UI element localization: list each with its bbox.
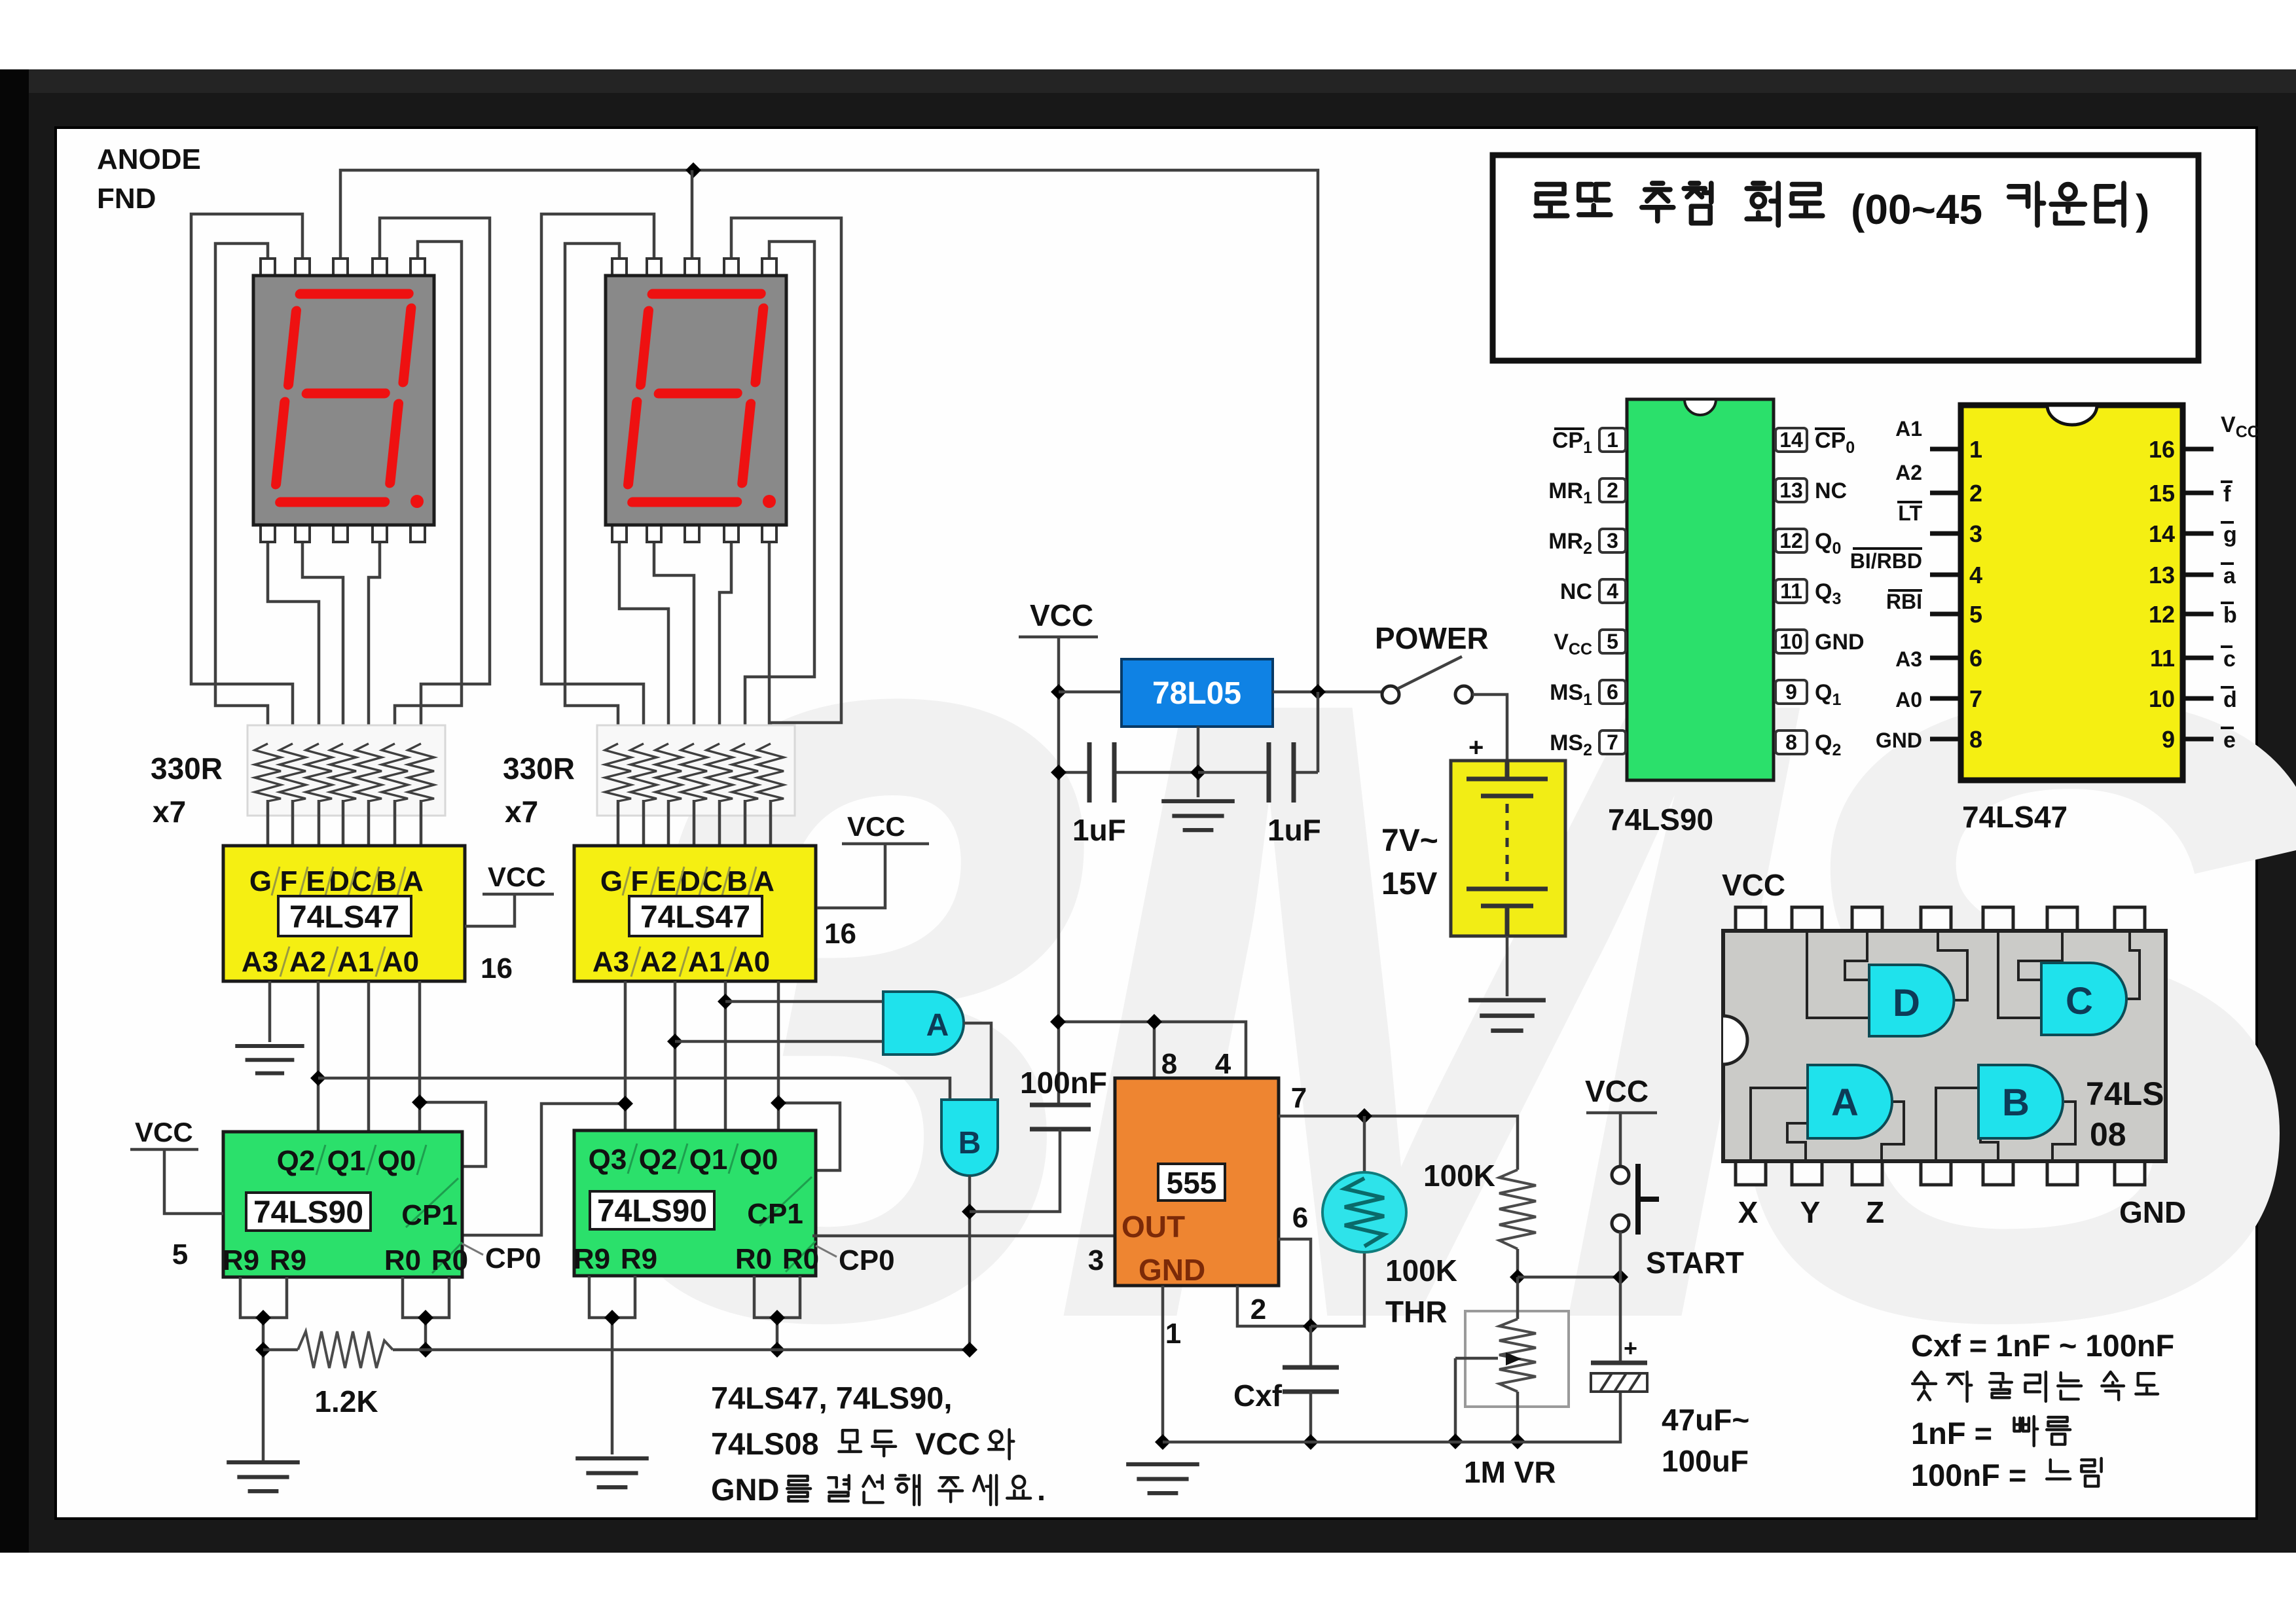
AND gate D	[1869, 965, 1954, 1036]
node Q2 chip2	[667, 1034, 683, 1049]
svg-text:7: 7	[1607, 731, 1618, 754]
ground under R9 chip1	[227, 1462, 300, 1491]
svg-text:THR: THR	[1385, 1295, 1448, 1329]
svg-text:ANODE: ANODE	[97, 143, 201, 175]
svg-text:C: C	[351, 865, 372, 897]
svg-text:GND: GND	[1139, 1253, 1205, 1287]
node R0 chip1	[418, 1310, 433, 1326]
svg-text:16: 16	[824, 918, 856, 950]
AND gate A	[1808, 1065, 1892, 1138]
wire gate A output to gate B	[964, 1023, 991, 1100]
svg-text:8: 8	[1161, 1048, 1177, 1080]
internal wiring	[1751, 931, 2140, 1161]
svg-text:R9: R9	[574, 1243, 610, 1275]
svg-text:Cxf: Cxf	[1233, 1379, 1283, 1413]
right pin labels	[1815, 428, 1865, 759]
svg-text:A2: A2	[640, 946, 677, 978]
left pin lines	[1930, 449, 1961, 739]
svg-text:330R: 330R	[503, 751, 575, 785]
capacitor 100nF	[970, 1066, 1107, 1212]
wire display1 bottom jogs	[268, 542, 380, 746]
node gate B output	[962, 1204, 977, 1219]
svg-text:R9: R9	[270, 1244, 306, 1276]
svg-text:10: 10	[1779, 630, 1803, 653]
svg-text:E: E	[306, 865, 325, 897]
top pins	[1736, 907, 1766, 931]
node anode junction display2	[685, 162, 701, 178]
svg-text:74LS90: 74LS90	[597, 1194, 707, 1229]
svg-text:A1: A1	[688, 946, 725, 978]
svg-text:5: 5	[172, 1238, 188, 1271]
svg-text:CP1: CP1	[747, 1198, 803, 1230]
wire Q1 chip2 (A1)	[724, 981, 727, 1130]
resistor 100K	[1423, 1159, 1536, 1277]
svg-text:1uF: 1uF	[1072, 813, 1126, 847]
node R9 chip2	[604, 1310, 620, 1326]
wire anode rail VCC to displays	[340, 170, 1318, 692]
wire R0 pins chip2	[754, 1276, 800, 1350]
svg-text:10: 10	[2149, 685, 2175, 712]
svg-text:5: 5	[1969, 601, 1982, 628]
svg-text:START: START	[1646, 1246, 1744, 1280]
AND gate C	[2041, 963, 2126, 1035]
thermistor THR 100K	[1311, 1116, 1457, 1329]
wire R0 pins chip1	[403, 1277, 449, 1350]
svg-text:x7: x7	[153, 795, 186, 829]
svg-text:100K: 100K	[1385, 1254, 1457, 1288]
wire 78L05 ground pin	[1197, 727, 1200, 797]
wire Q1 chip1 (A1)	[367, 981, 371, 1132]
IC 74LS90 #1 (tens counter)	[223, 1132, 468, 1277]
svg-text:d: d	[2223, 687, 2237, 712]
capacitor C1 1uF	[1059, 742, 1198, 847]
wire 78L05 output to power switch	[1273, 691, 1382, 694]
node 100K bottom	[1510, 1269, 1525, 1285]
wire 74LS47#1 A3 to ground	[268, 981, 272, 1042]
svg-text:b: b	[2223, 603, 2237, 628]
svg-text:4: 4	[1607, 579, 1618, 603]
wire Q0 chip2 (A0) + cascade to CP1	[778, 981, 840, 1170]
svg-text:15: 15	[2149, 480, 2175, 507]
svg-text:74LS47: 74LS47	[289, 900, 399, 935]
ground under R9 chip2	[575, 1458, 649, 1487]
ground under 74LS47#1 A3	[235, 1046, 304, 1074]
wire 555 pin1 to ground rail	[1161, 1286, 1165, 1442]
svg-text:A: A	[1831, 1081, 1859, 1124]
svg-text:D: D	[1893, 982, 1920, 1024]
node R9 chip1	[255, 1310, 271, 1326]
right pin numbers	[2149, 436, 2175, 753]
wire Q0 chip1 (A0) + cascade to CP1	[420, 981, 486, 1166]
svg-text:VCC: VCC	[1722, 868, 1785, 902]
right labels	[2221, 412, 2259, 753]
svg-text:R0: R0	[384, 1244, 421, 1276]
svg-text:Q0: Q0	[378, 1145, 416, 1177]
svg-text:2: 2	[1607, 478, 1618, 502]
svg-text:74LS90: 74LS90	[1608, 803, 1713, 837]
wire display2 bottom jogs	[619, 542, 769, 746]
wire gate A input 2 from Q2 chip2	[675, 1040, 883, 1043]
node Q2 chip1	[310, 1070, 326, 1086]
node Q3 chip2	[617, 1096, 633, 1111]
svg-text:FND: FND	[97, 183, 156, 215]
svg-text:POWER: POWER	[1375, 621, 1489, 655]
svg-text:13: 13	[2149, 562, 2175, 588]
svg-text:A2: A2	[1895, 461, 1922, 484]
svg-text:1nF =: 1nF =	[1911, 1416, 1992, 1451]
VCC symbol for 74LS47 #1 pin16	[465, 861, 554, 984]
svg-text:R9: R9	[621, 1243, 657, 1275]
svg-text:(00~45: (00~45	[1851, 186, 1982, 233]
svg-text:15V: 15V	[1381, 867, 1437, 901]
label 5 and VCC symbol for 74LS90 #1	[130, 1117, 223, 1271]
7-segment display FND2	[606, 259, 786, 542]
node 555 ground	[1155, 1434, 1171, 1450]
svg-text:16: 16	[2149, 436, 2175, 463]
node R0 chip2	[769, 1310, 785, 1326]
pushbutton START	[1612, 1164, 1744, 1280]
wire VCC feed down to 555 rail	[1057, 637, 1061, 1105]
svg-text:74LS: 74LS	[2086, 1075, 2164, 1112]
svg-text:Cxf = 1nF ~ 100nF: Cxf = 1nF ~ 100nF	[1911, 1328, 2174, 1363]
svg-text:74LS47: 74LS47	[1962, 800, 2068, 834]
ground battery	[1468, 1000, 1546, 1031]
node 78L05 output / anode feed	[1310, 684, 1326, 700]
svg-text:NC: NC	[1815, 478, 1847, 503]
svg-text:11: 11	[1780, 579, 1802, 603]
svg-text:A: A	[403, 865, 424, 897]
svg-text:16: 16	[481, 952, 513, 984]
svg-text:6: 6	[1292, 1202, 1308, 1234]
svg-text:13: 13	[1779, 478, 1803, 502]
svg-text:3: 3	[1607, 529, 1618, 552]
pinout diagram 74LS47	[1850, 405, 2259, 834]
svg-text:100uF: 100uF	[1662, 1444, 1749, 1478]
svg-text:12: 12	[2149, 601, 2175, 628]
svg-text:LT: LT	[1898, 501, 1922, 525]
wire battery to ground	[1506, 936, 1509, 996]
7-segment display FND1	[253, 259, 434, 542]
svg-text:1: 1	[1607, 428, 1618, 452]
node VCC/78L05 input	[1051, 684, 1066, 700]
svg-text:OUT: OUT	[1121, 1210, 1185, 1244]
svg-text:Q2: Q2	[639, 1144, 678, 1176]
label ANODE FND	[97, 143, 201, 215]
svg-text:C: C	[2066, 980, 2093, 1022]
svg-text:.: .	[1037, 1472, 1046, 1507]
svg-text:CP1: CP1	[401, 1199, 458, 1231]
wire gate A input 1 from Q1 chip2	[725, 1000, 883, 1003]
wire 78L05 input	[1059, 691, 1121, 694]
svg-text:G: G	[600, 865, 623, 897]
svg-text:7: 7	[1969, 685, 1982, 712]
svg-text:BI/RBD: BI/RBD	[1850, 549, 1922, 573]
svg-text:A1: A1	[337, 946, 374, 978]
node pin7	[1357, 1108, 1372, 1124]
svg-text:7: 7	[1291, 1082, 1307, 1114]
svg-text:14: 14	[2149, 520, 2175, 547]
capacitor C2 1uF	[1198, 742, 1321, 847]
node pin2/6	[1303, 1318, 1319, 1334]
wire 100K to START	[1518, 1276, 1620, 1279]
svg-text:Y: Y	[1800, 1195, 1821, 1229]
AND gate B (pointing down)	[941, 1100, 998, 1176]
svg-text:6: 6	[1607, 680, 1618, 704]
note text Cxf speed (Korean)	[1911, 1328, 2174, 1492]
node 555 pin8 rail	[1050, 1014, 1066, 1030]
svg-text:555: 555	[1167, 1166, 1217, 1200]
label 330R x7 (RN1)	[151, 751, 223, 829]
right pin boxes 14-8	[1776, 428, 1807, 754]
svg-text:Q0: Q0	[740, 1144, 778, 1176]
VCC symbol main supply	[1019, 598, 1098, 637]
svg-text:1.2K: 1.2K	[314, 1384, 378, 1418]
svg-text:1: 1	[1165, 1318, 1181, 1350]
battery 7V~15V	[1451, 733, 1565, 936]
svg-text:A3: A3	[1895, 647, 1922, 671]
svg-text:3: 3	[1969, 520, 1982, 547]
wire 555 pin2	[1237, 1286, 1311, 1326]
ground 555	[1126, 1464, 1199, 1493]
IC 74LS47 #2 (BCD decoder, ones)	[574, 846, 816, 981]
svg-text:74LS47, 74LS90,: 74LS47, 74LS90,	[711, 1380, 952, 1415]
svg-text:GND: GND	[1815, 630, 1865, 655]
svg-text:3: 3	[1088, 1244, 1104, 1276]
svg-text:100nF =: 100nF =	[1911, 1458, 2026, 1492]
svg-text:Q3: Q3	[589, 1144, 627, 1176]
node VR wiper rail	[1448, 1434, 1463, 1449]
svg-text:6: 6	[1969, 645, 1982, 672]
AND gate A	[883, 992, 964, 1055]
resistor network RN1 330R x7	[247, 725, 445, 846]
label 7V~ 15V	[1381, 823, 1438, 901]
svg-text:74LS90: 74LS90	[253, 1195, 363, 1230]
svg-text:4: 4	[1969, 562, 1982, 588]
wire R9 pins chip2 to ground	[589, 1276, 635, 1454]
svg-text:G: G	[249, 865, 272, 897]
svg-text:GND: GND	[1876, 729, 1922, 752]
resistor network RN2 330R x7	[597, 725, 795, 846]
left pin labels	[1548, 428, 1592, 759]
svg-text:A0: A0	[1895, 688, 1922, 712]
svg-text:Z: Z	[1866, 1195, 1884, 1229]
svg-text:g: g	[2223, 522, 2237, 547]
svg-text:1uF: 1uF	[1267, 813, 1321, 847]
svg-text:+: +	[1624, 1335, 1637, 1362]
node regulator ground	[1190, 765, 1206, 780]
pinout diagram 74LS90	[1548, 399, 1864, 837]
left labels	[1850, 417, 1923, 752]
svg-text:100nF: 100nF	[1020, 1066, 1107, 1100]
svg-text:B: B	[2002, 1081, 2030, 1124]
svg-text:VCC: VCC	[135, 1117, 193, 1147]
svg-text:Q1: Q1	[689, 1144, 728, 1176]
label 555 pin numbers	[1088, 1048, 1308, 1350]
svg-text:a: a	[2223, 564, 2236, 588]
svg-text:CP0: CP0	[839, 1244, 895, 1276]
svg-text:R0: R0	[431, 1244, 468, 1276]
node VR bottom rail	[1510, 1434, 1525, 1449]
svg-text:9: 9	[2162, 726, 2175, 753]
svg-text:330R: 330R	[151, 751, 223, 785]
node Q0 chip2	[771, 1095, 786, 1111]
svg-text:f: f	[2223, 482, 2231, 507]
IC 74LS47 #1 (BCD decoder, tens)	[223, 846, 465, 981]
svg-text:e: e	[2223, 728, 2236, 753]
variable resistor 1M VR	[1455, 1277, 1569, 1489]
svg-text:NC: NC	[1560, 579, 1592, 604]
svg-text:8: 8	[1785, 731, 1797, 754]
regulator 78L05	[1121, 659, 1273, 727]
title box	[1493, 155, 2198, 361]
svg-text:A3: A3	[592, 946, 629, 978]
wire R9 pins chip1	[240, 1277, 287, 1460]
right pin lines	[2183, 449, 2214, 739]
svg-text:VCC: VCC	[488, 861, 546, 892]
capacitor Cxf	[1233, 1326, 1339, 1442]
node cap C1 left	[1051, 765, 1066, 780]
wire timing ground rail	[1163, 1392, 1620, 1442]
svg-text:9: 9	[1785, 680, 1797, 704]
AND gate B	[1978, 1065, 2063, 1138]
svg-text:1M VR: 1M VR	[1464, 1455, 1556, 1489]
svg-text:1: 1	[1969, 436, 1982, 463]
capacitor 47uF~100uF electrolytic	[1591, 1277, 1749, 1478]
svg-text:12: 12	[1779, 529, 1803, 552]
svg-text:+: +	[1468, 733, 1484, 762]
svg-text:GND: GND	[2119, 1195, 2186, 1229]
timer IC 555	[1115, 1078, 1279, 1287]
label 330R x7 (RN2)	[503, 751, 575, 829]
node Cxf bottom	[1303, 1434, 1319, 1450]
node Q0 chip1	[412, 1094, 428, 1110]
svg-text:7V~: 7V~	[1381, 823, 1438, 858]
svg-text:c: c	[2223, 647, 2236, 672]
VCC symbol for 74LS47 #2 pin16	[817, 811, 929, 950]
svg-text:X: X	[1738, 1195, 1758, 1229]
wire Q3 chip2 (A3) to CP0 chip1	[464, 981, 625, 1235]
svg-text:): )	[2136, 186, 2149, 233]
left pin boxes 1-7	[1599, 428, 1626, 754]
svg-text:78L05: 78L05	[1152, 676, 1241, 711]
svg-text:A: A	[926, 1008, 949, 1043]
pinout diagram 74LS08	[1722, 868, 2186, 1229]
svg-text:08: 08	[2090, 1116, 2126, 1153]
svg-text:8: 8	[1969, 726, 1982, 753]
svg-text:A0: A0	[733, 946, 770, 978]
VCC symbol START	[1585, 1074, 1657, 1166]
svg-text:GND: GND	[711, 1472, 779, 1507]
wire display2 top loops	[541, 214, 841, 746]
svg-text:2: 2	[1250, 1293, 1266, 1326]
svg-text:Q1: Q1	[327, 1145, 366, 1177]
svg-text:VCC: VCC	[1030, 598, 1093, 632]
svg-text:B: B	[958, 1126, 981, 1161]
resistor 1.2K on reset rail	[263, 1331, 970, 1418]
node Q1 chip2	[718, 994, 733, 1009]
left pin numbers	[1969, 436, 1982, 753]
note text 74LS47, 74LS90, 74LS08 VCC/GND (Korean)	[711, 1380, 1046, 1507]
ground regulator	[1161, 801, 1235, 830]
wire Q2 chip1 to gate B input	[318, 1078, 950, 1100]
IC 74LS90 #2 (ones counter)	[574, 1130, 819, 1276]
wire 555 OUT to CP0 chip2	[812, 1235, 1115, 1238]
wire Q2 chip1 (A2)	[317, 981, 320, 1132]
wire 555 pin7	[1279, 1116, 1518, 1170]
svg-text:74LS47: 74LS47	[640, 900, 750, 935]
svg-text:Q2: Q2	[277, 1145, 316, 1177]
svg-text:74LS08: 74LS08	[711, 1426, 819, 1461]
wire anode feed down to cap rail	[1317, 692, 1320, 772]
wire 555 VCC rail pins 8/4	[1058, 1022, 1246, 1078]
wire switch to battery	[1472, 695, 1507, 761]
svg-text:A: A	[754, 865, 774, 897]
wire Q2 chip2 (A2)	[674, 981, 677, 1130]
svg-text:47uF~: 47uF~	[1662, 1403, 1749, 1437]
wire gate B output	[968, 1176, 972, 1350]
wire 555 pin6	[1279, 1239, 1311, 1326]
svg-text:100K: 100K	[1423, 1159, 1495, 1193]
svg-text:A0: A0	[382, 946, 419, 978]
svg-text:VCC: VCC	[1585, 1074, 1649, 1108]
title text: 로또 추첨 회로 (00~45 카운터)	[1536, 183, 2150, 233]
svg-text:R0: R0	[735, 1243, 772, 1275]
node reset rail / gate B	[962, 1342, 977, 1358]
svg-text:R9: R9	[223, 1244, 259, 1276]
svg-text:F: F	[631, 865, 649, 897]
svg-text:RBI: RBI	[1886, 590, 1922, 613]
svg-text:4: 4	[1215, 1048, 1231, 1080]
svg-text:14: 14	[1779, 428, 1803, 452]
svg-text:VCC: VCC	[847, 811, 905, 842]
svg-text:A1: A1	[1895, 417, 1922, 441]
switch POWER	[1375, 621, 1489, 703]
svg-text:VCC: VCC	[915, 1426, 980, 1461]
bottom pins	[1736, 1161, 1766, 1185]
svg-text:CP0: CP0	[485, 1242, 541, 1274]
svg-text:E: E	[657, 865, 676, 897]
node START bottom	[1613, 1269, 1628, 1285]
svg-text:R0: R0	[782, 1243, 819, 1275]
svg-text:F: F	[280, 865, 298, 897]
svg-text:2: 2	[1969, 480, 1982, 507]
svg-text:x7: x7	[505, 795, 538, 829]
svg-text:A2: A2	[289, 946, 326, 978]
svg-text:C: C	[702, 865, 723, 897]
svg-text:5: 5	[1607, 630, 1618, 653]
svg-text:A3: A3	[242, 946, 278, 978]
svg-text:11: 11	[2150, 645, 2175, 672]
wire display1 top loops	[191, 214, 490, 746]
